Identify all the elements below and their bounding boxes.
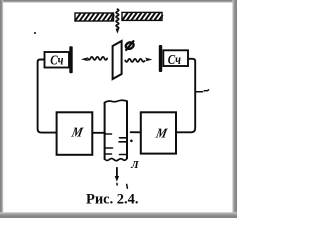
counter Сч left box [45, 52, 70, 68]
svg-text:Рис. 2.4.: Рис. 2.4. [86, 192, 139, 208]
tape bottom torn edge [105, 158, 127, 160]
foil plate F [113, 41, 122, 79]
counter right entrance bar [159, 45, 162, 72]
wire left M to tape [92, 132, 105, 134]
photon wavy arrow right [125, 58, 152, 62]
tape Л right edge [126, 101, 128, 158]
wire right M to tape [131, 131, 141, 133]
mechanism box M left [57, 112, 93, 155]
wire left counter to left M [38, 60, 57, 133]
tape tick marks right [119, 138, 127, 155]
ceiling hatched bar left [75, 13, 114, 21]
svg-text:Сч: Сч [168, 52, 181, 67]
dot at tape right [130, 140, 133, 143]
svg-text:Сч: Сч [50, 52, 63, 67]
ceiling hatched bar right [122, 12, 162, 20]
specks above caption [117, 183, 128, 188]
counter Сч right box [163, 50, 188, 66]
tape Л left edge [104, 103, 106, 159]
tape feed arrow down [115, 168, 119, 182]
svg-text:Л: Л [130, 160, 139, 171]
speck top left [34, 32, 36, 34]
wire right counter to right M [176, 59, 195, 133]
stray dashes right of wire [196, 90, 208, 92]
suspension squiggle through ceiling gap [116, 9, 120, 34]
photon wavy arrow left [81, 57, 107, 61]
counter left entrance bar [69, 46, 72, 73]
mechanism box M right [141, 112, 176, 153]
tape tick marks left [105, 134, 113, 154]
tape top torn edge [105, 100, 127, 102]
label Ф [125, 41, 135, 50]
